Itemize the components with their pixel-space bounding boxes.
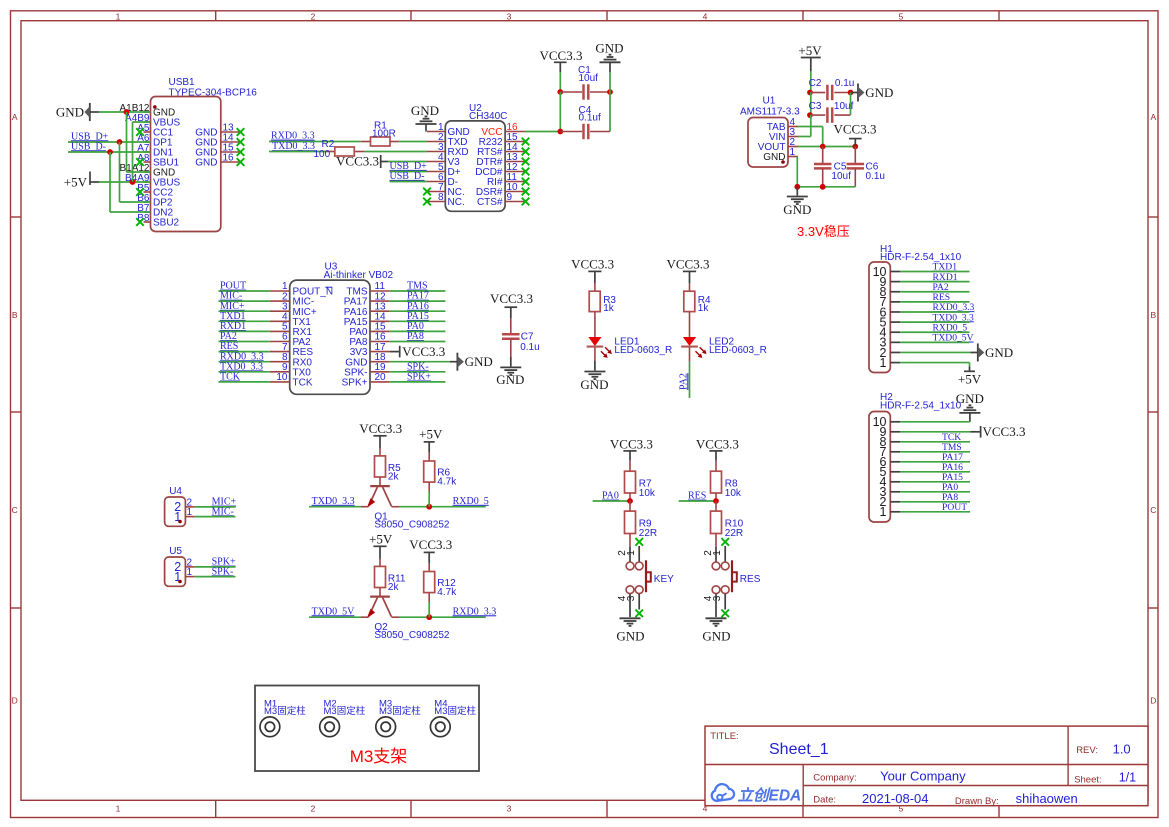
- svg-text:Sheet_1: Sheet_1: [769, 741, 829, 758]
- junction +5V VBUS: [130, 179, 136, 185]
- wire VCC3.3 to U2 pin 4 V3: [388, 161, 427, 163]
- mounting hole M4 M3: [430, 699, 476, 737]
- wire RXD0_3.3 to R1: [269, 141, 361, 143]
- wire TXD0_5V to emitter: [309, 616, 361, 618]
- svg-text:GND: GND: [763, 152, 785, 163]
- svg-text:D: D: [12, 696, 18, 706]
- svg-text:1.0: 1.0: [1113, 742, 1131, 757]
- svg-text:SPK+: SPK+: [342, 378, 368, 389]
- svg-text:10k: 10k: [725, 488, 742, 499]
- wire +5V to pin B4A9 VBUS: [99, 181, 151, 183]
- svg-text:RXD0_5: RXD0_5: [453, 496, 489, 507]
- svg-text:PA2: PA2: [678, 373, 689, 390]
- wire R11 to base: [379, 588, 381, 597]
- mounting bracket box M3: [255, 686, 479, 772]
- wire LED1 to GND: [594, 347, 596, 361]
- VCC3.3 power flag above R4: [667, 256, 710, 283]
- svg-text:1k: 1k: [698, 303, 710, 314]
- wire RXD1 H1 pin 9: [900, 281, 970, 283]
- +5V power flag at USB1: [64, 172, 99, 190]
- svg-text:S8050_C908252: S8050_C908252: [374, 630, 450, 641]
- title block: [705, 726, 1148, 807]
- resistor R5 2k: [375, 448, 402, 482]
- GND power symbol below RES: [702, 618, 730, 643]
- wire USB_D+ to pin A6 DP1: [68, 141, 151, 143]
- no-connect X RES pin 1: [721, 538, 729, 546]
- no-connect X KEY pin 1: [635, 538, 643, 546]
- wire R4 to LED2: [689, 312, 691, 338]
- wire TXD0_3.3 to U3 pin 9: [219, 371, 270, 373]
- svg-text:TCK: TCK: [220, 372, 241, 383]
- svg-text:9: 9: [507, 192, 513, 203]
- svg-text:0.1uf: 0.1uf: [579, 113, 601, 124]
- junction C2 left: [807, 90, 813, 96]
- svg-text:5: 5: [899, 11, 904, 21]
- svg-text:D: D: [1150, 696, 1156, 706]
- resistor R3 1k: [589, 283, 616, 314]
- svg-text:U1: U1: [763, 95, 776, 106]
- wire R7 to junction: [629, 493, 631, 501]
- wire PA8 from U3 pin 16: [390, 341, 446, 343]
- wire PA2 to U3 pin 6: [219, 341, 270, 343]
- GND power flag at U3 pin 18: [450, 353, 493, 371]
- VCC3.3 power flag at U3 pin 17 3V3: [390, 344, 446, 359]
- resistor R6 4.7k: [424, 453, 458, 488]
- svg-text:VCC3.3: VCC3.3: [610, 437, 653, 452]
- wire RXD0_3.3 to U3 pin 8: [219, 361, 270, 363]
- capacitor C4 0.1uf: [560, 105, 610, 139]
- junction PA0: [627, 498, 633, 504]
- svg-text:3: 3: [507, 11, 512, 21]
- transistor Q2 S8050: [361, 597, 450, 641]
- svg-text:22R: 22R: [725, 528, 743, 539]
- svg-text:Company:: Company:: [813, 772, 856, 783]
- GND power symbol below LED1: [580, 361, 608, 392]
- wire MIC+: [195, 506, 236, 508]
- wire VCC3.3 down to C1: [559, 72, 561, 92]
- svg-text:0.1u: 0.1u: [520, 342, 539, 353]
- connector U5: [165, 546, 195, 586]
- svg-text:NC.: NC.: [448, 197, 465, 208]
- svg-text:SPK-: SPK-: [212, 566, 234, 577]
- wire R5 to base: [379, 477, 381, 486]
- junction C4 left: [557, 129, 563, 135]
- no-connect X KEY pin 3: [635, 610, 643, 618]
- junction C1 right: [607, 89, 613, 95]
- junction GND rail left: [794, 184, 800, 190]
- svg-text:SBU2: SBU2: [153, 218, 180, 229]
- GND power symbol at U2 pin 1: [411, 103, 439, 132]
- VCC3.3 power flag above button chain RES: [696, 437, 739, 461]
- svg-text:VCC3.3: VCC3.3: [834, 121, 877, 136]
- svg-text:A: A: [12, 112, 18, 122]
- wire +5V down to C2: [810, 71, 812, 93]
- wire RES H1 pin 7: [900, 301, 970, 303]
- wire R3 to LED1: [594, 312, 596, 338]
- svg-text:TXD0_5V: TXD0_5V: [312, 606, 356, 617]
- connector USB1 TYPEC-304-BCP16: [119, 77, 257, 232]
- svg-text:10uf: 10uf: [831, 171, 851, 182]
- ground rail wire: [797, 186, 855, 188]
- wire RES: [679, 500, 716, 502]
- capacitor C3 10uf: [809, 101, 854, 123]
- wire USB_D- to U2 pin 6: [390, 181, 428, 183]
- svg-text:10k: 10k: [639, 488, 656, 499]
- svg-text:MIC-: MIC-: [212, 506, 234, 517]
- svg-text:GND: GND: [496, 372, 524, 387]
- svg-text:3.3V稳压: 3.3V稳压: [797, 224, 850, 239]
- capacitor C1 10uf: [560, 65, 610, 100]
- svg-text:2021-08-04: 2021-08-04: [862, 791, 929, 806]
- wire PA15 from U3 pin 14: [390, 320, 446, 322]
- wire TCK to U3 pin 10: [219, 381, 270, 383]
- svg-text:REV:: REV:: [1076, 745, 1098, 756]
- svg-text:PA0: PA0: [602, 491, 619, 502]
- svg-text:M3固定柱: M3固定柱: [379, 705, 421, 717]
- wire RXD0_3.3 H1 pin 6: [900, 311, 970, 313]
- GND power symbol below C7: [496, 357, 524, 387]
- VCC3.3 power flag above R5: [359, 421, 402, 448]
- resistor R8 10k: [711, 461, 742, 499]
- no-connect X RES pin 3: [721, 610, 729, 618]
- svg-text:Date:: Date:: [813, 795, 836, 806]
- svg-text:3: 3: [507, 804, 512, 814]
- svg-text:VCC3.3: VCC3.3: [540, 48, 583, 63]
- svg-text:3: 3: [626, 595, 637, 601]
- svg-text:U4: U4: [169, 486, 182, 497]
- wire USB_D+ to U2 pin 5: [390, 171, 428, 173]
- header H2 HDR-F-2.54_1x10: [869, 392, 962, 522]
- capacitor C5 10uf: [814, 147, 851, 187]
- wire VOUT net: [798, 146, 855, 148]
- VCC3.3 power flag above C1: [540, 48, 583, 72]
- wire U3 pin 18 GND: [390, 361, 450, 363]
- +5V power flag at U1: [798, 43, 822, 71]
- wire MIC+ to U3 pin 3: [219, 310, 270, 312]
- wire R2 to U2 pin 3 RXD: [365, 151, 427, 153]
- VCC3.3 power flag at H2 pin 9: [971, 424, 1026, 439]
- svg-text:100: 100: [314, 149, 331, 160]
- wire USB_D+ to pin B6 DP2: [120, 142, 151, 202]
- VCC3.3 power flag above button chain KEY: [610, 437, 653, 461]
- svg-text:RES: RES: [740, 574, 761, 585]
- svg-text:SPK+: SPK+: [407, 372, 431, 383]
- svg-text:GND: GND: [616, 628, 644, 643]
- transistor Q1 S8050: [361, 486, 450, 530]
- svg-text:8: 8: [438, 192, 444, 203]
- wire SPK-: [195, 576, 236, 578]
- svg-text:3: 3: [712, 595, 723, 601]
- wire PA16 H2 pin 5: [900, 471, 970, 473]
- wire VBUS A4B9 tie: [133, 122, 151, 182]
- svg-text:1: 1: [790, 147, 796, 158]
- junction USB_D-: [107, 149, 113, 155]
- IC U3 Ai-thinker VB02: [270, 261, 394, 394]
- wire RXD1 to U3 pin 5: [219, 330, 270, 332]
- mounting hole M2 M3: [320, 699, 366, 737]
- wire TXD0_3.3 to R2: [269, 151, 325, 153]
- svg-text:1: 1: [880, 356, 887, 370]
- wire MIC-: [195, 516, 236, 518]
- no-connect X pins 13-16: [237, 128, 245, 166]
- svg-text:HDR-F-2.54_1x10: HDR-F-2.54_1x10: [880, 401, 962, 412]
- wire R6 to collector: [428, 482, 430, 507]
- svg-text:GND: GND: [195, 158, 217, 169]
- svg-text:TXD0_3.3: TXD0_3.3: [272, 141, 315, 152]
- resistor R1 100R: [361, 120, 399, 146]
- VCC3.3 power flag at U2 pin 4: [336, 153, 388, 168]
- svg-text:B: B: [1150, 310, 1156, 320]
- svg-text:C7: C7: [521, 331, 534, 342]
- capacitor C2 0.1u: [809, 78, 855, 100]
- svg-text:LED-0603_R: LED-0603_R: [614, 345, 672, 356]
- svg-text:LED-0603_R: LED-0603_R: [709, 345, 767, 356]
- svg-text:20: 20: [375, 372, 387, 383]
- wire SPK+ from U3 pin 20: [390, 381, 446, 383]
- GND power symbol below U1: [783, 187, 811, 217]
- resistor R12 4.7k: [424, 563, 458, 598]
- svg-text:AMS1117-3.3: AMS1117-3.3: [740, 107, 800, 118]
- svg-text:+5V: +5V: [419, 427, 443, 442]
- svg-text:RXD0_3.3: RXD0_3.3: [453, 606, 497, 617]
- EasyEDA logo: [712, 784, 802, 804]
- wire H1 pin 2 to GND: [900, 351, 970, 353]
- wire H2 pin 10 to GND: [900, 421, 970, 423]
- svg-text:A: A: [1150, 112, 1156, 122]
- svg-text:100R: 100R: [372, 129, 396, 140]
- +5V power flag at H1 pin 1: [958, 371, 982, 386]
- junction VOUT C5: [820, 144, 826, 150]
- svg-text:VCC3.3: VCC3.3: [983, 424, 1026, 439]
- svg-text:CTS#: CTS#: [477, 197, 503, 208]
- wire SPK- from U3 pin 19: [390, 371, 446, 373]
- +5V power flag above R11: [369, 532, 393, 559]
- wire TXD0_3.3 to emitter: [309, 506, 361, 508]
- svg-text:M3固定柱: M3固定柱: [324, 705, 366, 717]
- wire PA15 H2 pin 4: [900, 481, 970, 483]
- push button RES: [703, 546, 761, 617]
- svg-text:TXD0_3.3: TXD0_3.3: [312, 496, 355, 507]
- svg-text:Sheet:: Sheet:: [1074, 775, 1101, 786]
- junction VCC3.3 C1: [557, 89, 563, 95]
- wire USB_D- to pin A7 DN1: [68, 151, 151, 153]
- svg-text:1: 1: [626, 550, 637, 556]
- resistor R9 22R: [625, 501, 658, 539]
- svg-text:1: 1: [116, 804, 121, 814]
- svg-text:shihaowen: shihaowen: [1016, 791, 1078, 806]
- svg-text:0.1u: 0.1u: [866, 171, 885, 182]
- svg-text:GND: GND: [985, 345, 1013, 360]
- no-connect X U2 pins 7 8: [423, 188, 431, 206]
- wire POUT H2 pin 1: [900, 511, 970, 513]
- svg-text:GND: GND: [702, 628, 730, 643]
- GND power symbol above H2: [956, 391, 984, 422]
- svg-text:PA8: PA8: [407, 331, 424, 342]
- svg-text:+5V: +5V: [958, 371, 982, 386]
- wire R10 to switch pin 2: [715, 534, 717, 548]
- LED LED1 LED-0603_R: [587, 336, 673, 358]
- junction collector R12: [426, 614, 432, 620]
- mounting hole M3 M3: [376, 699, 421, 737]
- svg-text:RXD0_3.3: RXD0_3.3: [271, 131, 315, 142]
- no-connect X U2 pins 9-15: [522, 138, 530, 206]
- svg-text:VCC3.3: VCC3.3: [409, 537, 452, 552]
- svg-text:2: 2: [311, 11, 316, 21]
- svg-text:B: B: [12, 310, 18, 320]
- svg-text:VCC3.3: VCC3.3: [696, 437, 739, 452]
- wire GND to pin B1A12: [127, 112, 151, 172]
- svg-text:VCC3.3: VCC3.3: [667, 256, 710, 271]
- svg-text:1/1: 1/1: [1119, 771, 1136, 785]
- svg-text:10uf: 10uf: [579, 73, 599, 84]
- wire TXD0_5V H1 pin 3: [900, 341, 970, 343]
- capacitor C7 0.1u: [502, 318, 540, 357]
- svg-text:C3: C3: [809, 101, 822, 112]
- wire PA2 from LED2: [689, 361, 691, 398]
- wire PA8 H2 pin 2: [900, 501, 970, 503]
- svg-text:Ai-thinker VB02: Ai-thinker VB02: [324, 270, 394, 281]
- svg-text:1k: 1k: [603, 303, 615, 314]
- wire TXD0_3.3 H1 pin 5: [900, 321, 970, 323]
- svg-text:U5: U5: [169, 546, 182, 557]
- wire R12 to collector: [428, 593, 430, 618]
- LED LED2 LED-0603_R: [681, 336, 767, 358]
- wire collector to RXD0_5: [400, 506, 486, 508]
- GND power flag right of C2: [851, 84, 894, 102]
- svg-text:C: C: [12, 505, 18, 515]
- wire TXD1 H1 pin 10: [900, 271, 970, 273]
- VCC3.3 power flag above R12: [409, 537, 452, 563]
- svg-text:22R: 22R: [639, 528, 657, 539]
- wire POUT to U3 pin 1: [219, 290, 270, 292]
- wire C2 to C3 left: [810, 93, 812, 116]
- resistor R11 2k: [375, 559, 406, 593]
- wire VCC U2 pin16 to C1 C4: [525, 131, 560, 133]
- svg-text:1: 1: [712, 550, 723, 556]
- svg-text:M3固定柱: M3固定柱: [434, 705, 476, 717]
- svg-text:GND: GND: [56, 104, 84, 119]
- junction USB_D+: [117, 139, 123, 145]
- IC U2 CH340C: [427, 103, 525, 212]
- svg-text:GND: GND: [865, 85, 893, 100]
- junction GND rail C5: [820, 184, 826, 190]
- svg-text:VCC3.3: VCC3.3: [571, 256, 614, 271]
- wire R8 to junction: [715, 493, 717, 501]
- svg-text:1: 1: [880, 505, 887, 519]
- resistor R2 100: [314, 139, 365, 160]
- svg-text:GND: GND: [595, 40, 623, 55]
- svg-text:VCC3.3: VCC3.3: [336, 153, 379, 168]
- capacitor C6 0.1u: [847, 147, 885, 187]
- mounting hole M1 M3: [260, 699, 306, 737]
- regulator U1 AMS1117-3.3: [740, 95, 800, 167]
- wire RES to U3 pin 7: [219, 351, 270, 353]
- wire PA0: [593, 500, 630, 502]
- resistor R4 1k: [684, 283, 711, 314]
- svg-text:M3固定柱: M3固定柱: [264, 705, 306, 717]
- wire VCC3.3 left side down: [559, 92, 561, 132]
- wire GND to pin A1B12: [99, 111, 151, 113]
- VCC3.3 power flag at VOUT: [834, 121, 877, 146]
- svg-text:16: 16: [223, 153, 235, 164]
- wire collector to RXD0_3.3: [400, 616, 486, 618]
- svg-text:Your Company: Your Company: [880, 769, 966, 784]
- wire GND down right side: [609, 72, 611, 132]
- wire R9 to switch pin 2: [629, 534, 631, 548]
- wire TXD1 to U3 pin 4: [219, 320, 270, 322]
- wire TMS from U3 pin 11: [390, 290, 446, 292]
- svg-text:2k: 2k: [388, 582, 400, 593]
- wire SPK+: [195, 566, 236, 568]
- svg-text:USB1: USB1: [169, 77, 196, 88]
- GND power flag at H1 pin 2: [970, 343, 1013, 361]
- svg-text:4.7k: 4.7k: [437, 587, 457, 598]
- wire MIC- to U3 pin 2: [219, 300, 270, 302]
- wire PA0 from U3 pin 15: [390, 330, 446, 332]
- junction C2 right: [848, 90, 854, 96]
- wire PA17 from U3 pin 12: [390, 300, 446, 302]
- wire C3 right up to C2: [850, 93, 852, 116]
- svg-text:TCK: TCK: [293, 378, 313, 389]
- wire H2 pin 9 to VCC3.3: [900, 431, 971, 433]
- svg-text:10: 10: [276, 372, 288, 383]
- wire LED2 cathode: [689, 347, 691, 361]
- GND power symbol above C1: [595, 40, 623, 72]
- svg-text:TITLE:: TITLE:: [710, 731, 739, 742]
- svg-text:GND: GND: [783, 202, 811, 217]
- svg-text:2: 2: [311, 804, 316, 814]
- wire R1 to U2 pin 2 TXD: [399, 141, 427, 143]
- wire TAB to VOUT net: [798, 127, 823, 147]
- push button KEY: [617, 546, 674, 617]
- svg-text:S8050_C908252: S8050_C908252: [374, 520, 450, 531]
- svg-text:VCC3.3: VCC3.3: [359, 421, 402, 436]
- VCC3.3 power flag above R3: [571, 256, 614, 283]
- wire U1 GND pin down: [796, 157, 798, 187]
- junction C3 left: [807, 112, 813, 118]
- wire VIN to +5V net: [798, 115, 811, 136]
- svg-text:GND: GND: [465, 354, 493, 369]
- svg-text:RES: RES: [688, 491, 706, 502]
- junction VOUT C6: [852, 144, 858, 150]
- svg-text:4.7k: 4.7k: [437, 476, 457, 487]
- svg-text:M3支架: M3支架: [350, 747, 408, 766]
- svg-text:0.1u: 0.1u: [835, 78, 854, 89]
- wire RXD0_5 H1 pin 4: [900, 331, 970, 333]
- GND power flag at USB1: [56, 103, 99, 121]
- resistor R7 10k: [625, 461, 656, 499]
- svg-text:2k: 2k: [388, 472, 400, 483]
- connector U4: [165, 486, 195, 526]
- junction collector R6: [426, 504, 432, 510]
- svg-text:+5V: +5V: [64, 174, 88, 189]
- wire PA16 from U3 pin 13: [390, 310, 446, 312]
- junction on GND wire: [124, 109, 130, 115]
- wire PA17 H2 pin 6: [900, 461, 970, 463]
- wire PA2 H1 pin 8: [900, 291, 970, 293]
- svg-text:VCC3.3: VCC3.3: [490, 291, 533, 306]
- wire TMS H2 pin 7: [900, 451, 970, 453]
- svg-text:+5V: +5V: [798, 43, 822, 58]
- svg-text:C: C: [1150, 505, 1156, 515]
- svg-text:KEY: KEY: [654, 574, 674, 585]
- wire PA0 H2 pin 3: [900, 491, 970, 493]
- wire USB_D- to pin B7 DN2: [110, 152, 151, 212]
- svg-text:USB_D-: USB_D-: [390, 171, 425, 182]
- header H1 HDR-F-2.54_1x10: [869, 244, 962, 373]
- svg-text:C2: C2: [809, 78, 822, 89]
- wire H1 pin 1 to +5V: [900, 363, 970, 372]
